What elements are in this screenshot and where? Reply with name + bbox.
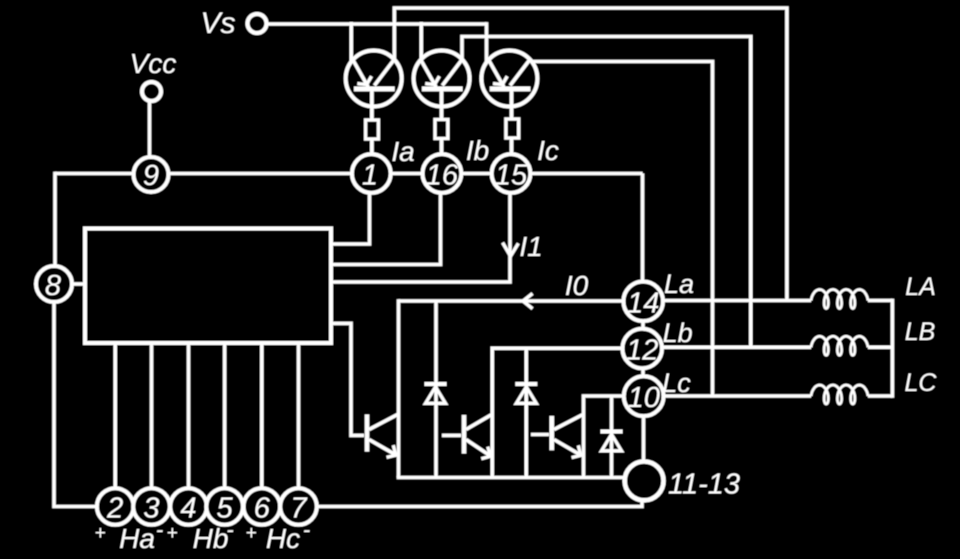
resistor Rb (435, 120, 448, 139)
inductor coil LA (811, 290, 868, 309)
pin 8 (36, 266, 72, 302)
svg-text:-: - (156, 517, 163, 542)
svg-text:8: 8 (45, 270, 61, 302)
wire pin 12 to pin 10 (641, 366, 645, 379)
svg-text:15: 15 (495, 160, 528, 192)
wire row corner down to pin 14 (641, 174, 645, 284)
wire Vs rail to Q3 emitter (485, 22, 489, 62)
diode D3 (601, 432, 623, 451)
svg-text:+: + (245, 523, 256, 544)
node Vcc terminal (142, 82, 161, 101)
wire pin 10 to common node 11-13 (642, 414, 646, 463)
current arrow I1 (503, 243, 519, 257)
wire controller to pin 4 (187, 343, 191, 489)
pin 3 (133, 488, 170, 525)
pin 2 (97, 488, 134, 525)
wire Vs rail (261, 22, 487, 26)
wire resistor Ra to pin 1 (370, 139, 374, 156)
wire coil LA row (661, 299, 892, 303)
wire Vcc to pin 9 (148, 100, 152, 158)
svg-text:1: 1 (362, 160, 378, 192)
wire bridge block bottom edge (397, 476, 626, 480)
wire Q1 collector to coil LA (394, 8, 787, 301)
wire Vs rail to Q1 emitter (349, 22, 353, 62)
pin 4 (170, 488, 207, 525)
wire controller to pin 7 (297, 343, 301, 489)
svg-text:LA: LA (905, 273, 936, 301)
pin 9 (134, 157, 169, 192)
wire star point bus (891, 299, 895, 398)
wire controller to pin 2 (113, 343, 117, 489)
wire pin 16 to controller (331, 191, 441, 265)
pin 15 (492, 154, 531, 193)
svg-text:Ic: Ic (537, 135, 559, 166)
pin 1 (352, 154, 391, 193)
controller IC block (85, 229, 331, 344)
svg-text:14: 14 (627, 287, 659, 319)
svg-text:+: + (94, 523, 105, 544)
inductor coil LC (811, 385, 868, 404)
transistor Q3 (481, 51, 537, 120)
wire coil LB row (660, 345, 892, 349)
svg-text:-: - (226, 517, 233, 542)
wire resistor Rb to pin 16 (440, 139, 444, 157)
svg-text:+: + (166, 523, 177, 544)
wire pin 14 to pin 12 (641, 319, 645, 331)
wire D3 branch (610, 396, 614, 478)
pin 16 (423, 154, 462, 193)
pin 14 (623, 282, 663, 322)
wire main row pins 9,1,16,15 (55, 172, 643, 176)
wire controller to pin 3 (150, 343, 154, 489)
wire T2 base stub (442, 434, 461, 438)
wire pin 7 to common node 11-13 (316, 498, 642, 507)
wire controller to pin 6 (260, 343, 264, 489)
svg-text:12: 12 (626, 335, 658, 367)
svg-text:16: 16 (426, 160, 459, 192)
svg-text:Lc: Lc (662, 368, 691, 398)
pin 6 (243, 488, 280, 525)
transistor Q1 (346, 51, 402, 121)
current arrow I0 (523, 294, 533, 309)
svg-text:4: 4 (180, 493, 196, 525)
svg-text:Vcc: Vcc (130, 48, 177, 79)
svg-text:-: - (303, 517, 310, 542)
wire Q2 collector to coil LB (462, 37, 751, 348)
transistor T2 (464, 414, 492, 459)
wire pin 15 to controller carrying I1 (331, 191, 510, 282)
wire coil LC row (662, 394, 893, 398)
node pins 11-13 common (625, 462, 664, 501)
wire T3 base stub (531, 433, 549, 437)
svg-text:Vs: Vs (200, 7, 235, 40)
svg-text:Lb: Lb (663, 318, 693, 348)
wire D2 branch (524, 348, 528, 477)
pin 5 (206, 488, 243, 525)
resistor Ra (366, 120, 379, 139)
diode D2 (515, 384, 537, 403)
pin 10 (624, 376, 664, 416)
wire bridge block top edge carrying I0 (399, 299, 625, 303)
transistor Q2 (414, 51, 470, 120)
svg-text:Hc: Hc (266, 523, 300, 554)
svg-text:La: La (664, 269, 694, 299)
wire pin 10 to T3 collector branch (584, 396, 625, 478)
transistor T1 (367, 414, 399, 457)
node Vs terminal (248, 14, 267, 33)
svg-text:11-13: 11-13 (668, 469, 740, 501)
wire D1 branch (434, 301, 438, 478)
diode D1 (425, 384, 447, 403)
wire pin 1 to controller (331, 191, 370, 244)
svg-text:Ib: Ib (466, 135, 489, 166)
svg-text:I0: I0 (565, 270, 589, 301)
pin 12 (622, 329, 662, 369)
svg-text:Hb: Hb (193, 523, 229, 554)
wire pin 8 to controller stub (71, 282, 85, 286)
wire pin 8 down to pin 2 (54, 301, 98, 507)
resistor Rc (506, 119, 519, 138)
svg-text:Ha: Ha (119, 523, 155, 554)
svg-text:2: 2 (106, 493, 123, 525)
wire Vs rail to Q2 emitter (419, 22, 423, 62)
wire controller to pin 5 (223, 343, 227, 489)
wire row corner down to pin 8 (53, 172, 57, 267)
wire bridge block left edge (397, 299, 401, 477)
pin 7 (280, 488, 317, 525)
wire Q3 collector to coil LC (531, 62, 713, 397)
svg-text:I1: I1 (519, 231, 542, 262)
inductor coil LB (811, 336, 868, 355)
svg-text:LC: LC (905, 369, 938, 397)
wire pin 12 to T2 collector branch (492, 348, 623, 477)
svg-text:6: 6 (254, 493, 271, 525)
transistor T3 (552, 414, 584, 457)
svg-text:10: 10 (628, 382, 660, 414)
svg-text:LB: LB (905, 318, 936, 346)
svg-text:Ia: Ia (391, 136, 414, 167)
wire resistor Rc to pin 15 (510, 138, 514, 156)
wire controller to T1 base (331, 323, 364, 435)
svg-text:9: 9 (143, 160, 159, 192)
